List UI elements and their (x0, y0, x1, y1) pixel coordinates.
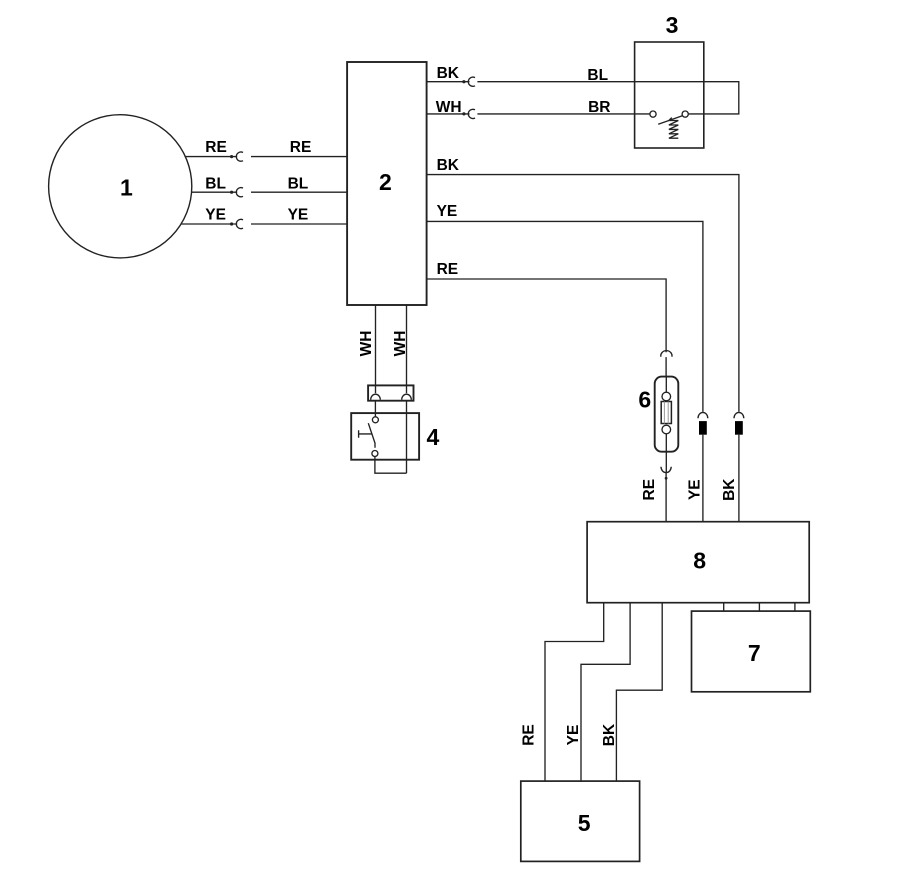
fuse wire bottom (665, 434, 667, 472)
switch contact right component3 (682, 111, 688, 117)
wire end pin below fuse (665, 477, 668, 480)
component 8 box (587, 522, 809, 603)
connector socket below fuse (661, 467, 671, 473)
wire stub 1 component8 to component7 (723, 603, 725, 611)
wire RE component1 to connector (150, 156, 237, 158)
wire YE component2 to vertical (427, 221, 703, 411)
svg-text:RE: RE (520, 724, 537, 746)
svg-text:WH: WH (436, 99, 462, 116)
wire stub 2 component8 to component7 (758, 603, 760, 611)
bullet connector WH (468, 109, 475, 118)
wire RE component8 to component5 (545, 603, 604, 781)
svg-text:BL: BL (205, 175, 226, 192)
wire BK to component8 (738, 435, 740, 522)
wire BL connector to component2 (251, 191, 347, 193)
svg-text:3: 3 (666, 12, 679, 38)
fuse element lines (664, 402, 668, 424)
component 4 box (351, 413, 419, 460)
wire YE to component8 (702, 435, 704, 522)
switch contact left component3 (650, 111, 656, 117)
connector socket right (402, 394, 412, 400)
svg-text:1: 1 (120, 175, 133, 201)
svg-text:5: 5 (578, 810, 591, 836)
wire WH right through component4 (406, 401, 408, 474)
svg-text:RE: RE (437, 261, 459, 278)
connector socket BK (734, 412, 744, 418)
component 1 (generator circle) (49, 115, 192, 258)
svg-text:2: 2 (379, 169, 392, 195)
svg-text:RE: RE (205, 139, 227, 156)
wire BK component2 to connector (427, 81, 470, 83)
svg-text:RE: RE (641, 479, 658, 501)
svg-text:4: 4 (427, 424, 440, 450)
wire stub 3 component8 to component7 (794, 603, 796, 611)
svg-text:YE: YE (288, 206, 309, 223)
connector body BK (735, 421, 743, 435)
connector block (368, 385, 413, 400)
component 6 fuse holder (655, 377, 679, 452)
connector socket above fuse (661, 351, 672, 357)
wire WH component2 to connector (427, 113, 470, 115)
wire RE connector to component2 (251, 156, 347, 158)
fuse bottom terminal (662, 425, 671, 434)
svg-text:BK: BK (721, 478, 738, 501)
component 2 box (347, 62, 427, 305)
svg-text:7: 7 (748, 640, 761, 666)
bullet connector RE (236, 152, 243, 161)
wire end pin RE (230, 155, 233, 158)
wire BL connector through component3 and loop to switch (477, 82, 738, 114)
svg-text:WH: WH (392, 331, 409, 357)
wire YE component8 to component5 (581, 603, 630, 781)
switch contact bottom component4 (372, 451, 378, 457)
component 5 box (521, 781, 640, 861)
svg-text:8: 8 (693, 548, 706, 574)
wire end pin BK (462, 80, 465, 83)
svg-text:YE: YE (565, 725, 582, 746)
switch contact top component4 (372, 417, 378, 423)
wire end pin YE (230, 222, 233, 225)
fuse wire top (665, 377, 667, 393)
svg-text:YE: YE (686, 479, 703, 500)
wire BK component2 to right vertical (427, 175, 739, 412)
wire BR connector to component3 switch (477, 113, 650, 115)
wire YE component1 to connector (150, 223, 237, 225)
wire RE to component8 (665, 473, 667, 522)
wire RE component2 to fuse (427, 279, 666, 352)
svg-text:YE: YE (437, 203, 458, 220)
svg-text:YE: YE (205, 206, 226, 223)
wire end pin WH (462, 112, 465, 115)
wire into fuse (665, 357, 667, 377)
svg-text:WH: WH (358, 331, 375, 357)
bullet connector BL (236, 188, 243, 197)
switch spring component3 (669, 118, 678, 139)
wire end pin BL (230, 191, 233, 194)
switch blade component4 (368, 423, 375, 448)
wire BL component1 to connector (150, 191, 237, 193)
svg-text:BL: BL (587, 67, 608, 84)
switch actuator component4 (359, 430, 372, 437)
svg-text:RE: RE (290, 139, 312, 156)
bullet connector YE (236, 219, 243, 228)
svg-text:BK: BK (437, 157, 460, 174)
connector socket left (371, 394, 381, 400)
wire from bottom contact around to right wire (375, 457, 407, 474)
fuse body (661, 402, 671, 424)
wire WH right from component2 down (406, 305, 408, 393)
component 3 box (635, 42, 704, 148)
connector socket YE (698, 412, 708, 418)
wire BK component8 to component5 (616, 603, 662, 781)
wire to component4 switch (374, 401, 376, 417)
wire YE connector to component2 (251, 223, 347, 225)
svg-text:BK: BK (601, 723, 618, 746)
switch blade component3 (658, 116, 682, 125)
connector body YE (699, 421, 707, 435)
svg-text:BK: BK (437, 65, 460, 82)
svg-text:BL: BL (288, 175, 309, 192)
svg-text:6: 6 (638, 387, 651, 413)
fuse top terminal (662, 392, 671, 401)
wire WH left from component2 down (375, 305, 377, 393)
svg-text:BR: BR (588, 99, 610, 116)
bullet connector BK (468, 77, 475, 86)
component 7 box (692, 611, 811, 692)
